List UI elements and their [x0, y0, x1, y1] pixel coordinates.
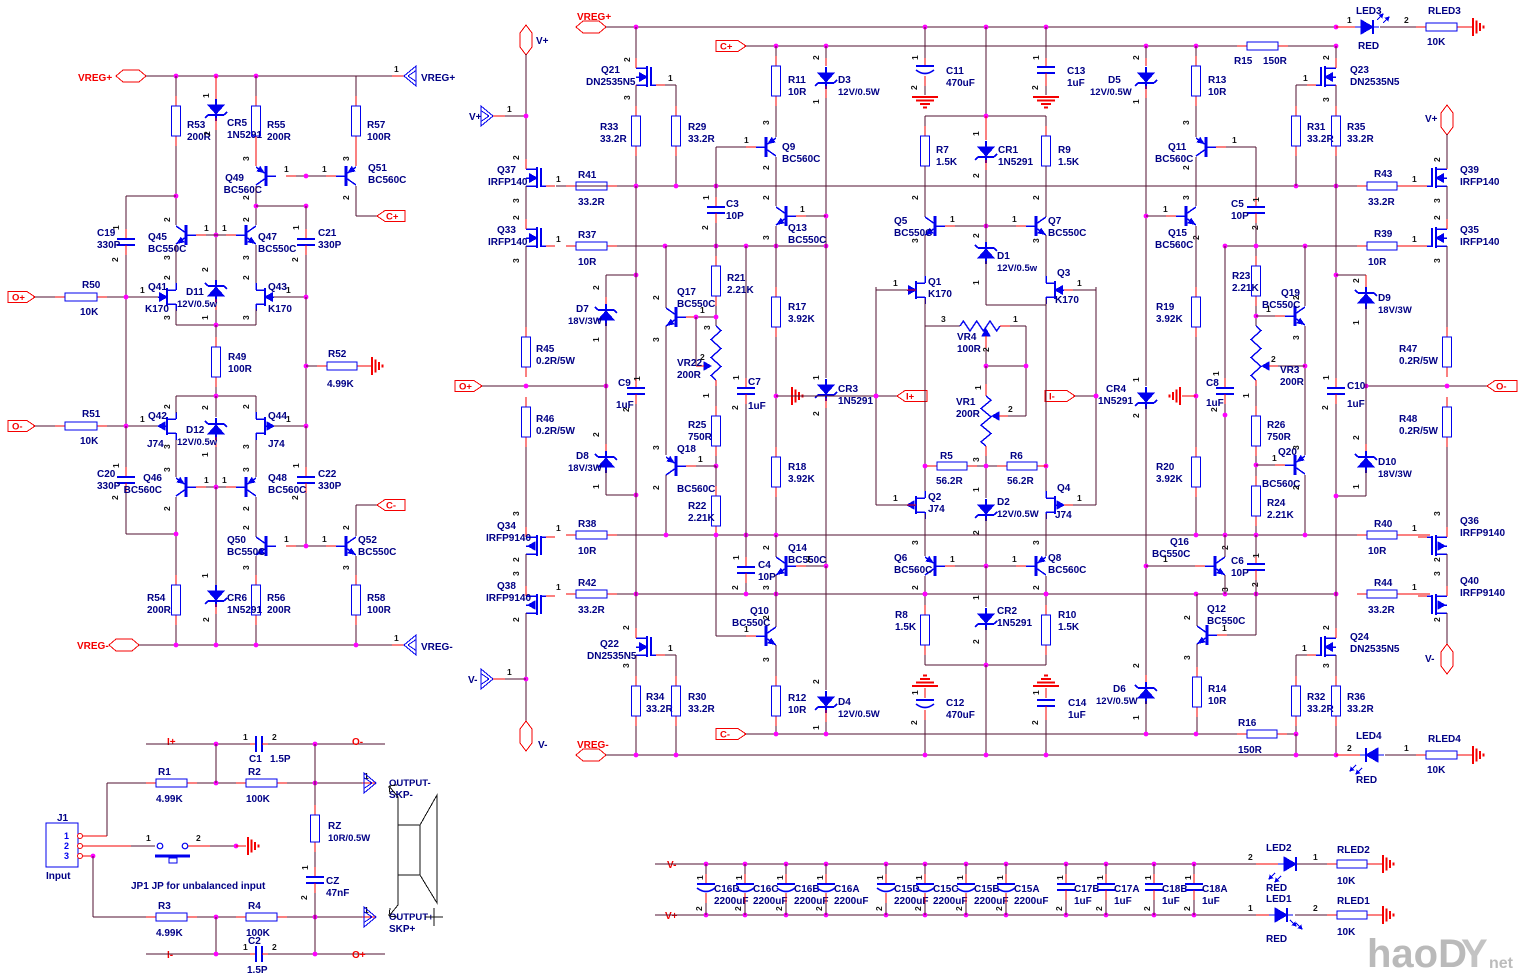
svg-text:3: 3	[241, 565, 251, 570]
svg-text:1: 1	[701, 195, 711, 200]
svg-text:2: 2	[971, 233, 981, 238]
svg-text:1: 1	[632, 376, 642, 381]
jfet Q42 J74	[166, 417, 168, 435]
svg-text:IRFP9140: IRFP9140	[1460, 588, 1505, 599]
svg-text:C16C: C16C	[753, 884, 779, 895]
svg-text:33.2R: 33.2R	[688, 134, 715, 145]
svg-text:1N5291: 1N5291	[227, 605, 262, 616]
svg-text:3: 3	[1181, 195, 1191, 200]
svg-text:1: 1	[291, 225, 301, 230]
svg-text:DN2535N5: DN2535N5	[1350, 644, 1400, 655]
wire R46 to Q34 drain	[525, 447, 527, 527]
svg-text:Q21: Q21	[601, 65, 620, 76]
wire Q14 emitter to rail594	[775, 575, 777, 594]
svg-text:200R: 200R	[1280, 377, 1305, 388]
svg-text:Q2: Q2	[928, 492, 942, 503]
svg-text:CR6: CR6	[227, 593, 247, 604]
capacitor C10	[1335, 378, 1337, 388]
svg-text:2: 2	[811, 55, 821, 60]
svg-text:2: 2	[1347, 743, 1352, 753]
svg-text:150R: 150R	[1263, 56, 1288, 67]
svg-text:1N5291: 1N5291	[1098, 396, 1133, 407]
svg-text:D4: D4	[838, 697, 851, 708]
svg-text:Y: Y	[1461, 932, 1488, 976]
svg-text:12V/0.5W: 12V/0.5W	[838, 87, 880, 98]
zener D5	[1145, 46, 1147, 58]
svg-text:C16B: C16B	[794, 884, 820, 895]
capacitor C18B	[1152, 862, 1157, 867]
svg-text:2: 2	[733, 906, 743, 911]
mosfet Q33 IRFP140	[525, 186, 527, 228]
wire R12 to C- rail	[775, 726, 777, 734]
resistor R52	[306, 365, 317, 367]
svg-text:2: 2	[241, 404, 251, 409]
svg-text:33.2R: 33.2R	[600, 134, 627, 145]
svg-text:Q44: Q44	[268, 411, 287, 422]
potentiometer VR3	[1251, 326, 1261, 380]
transistor Q52	[345, 536, 348, 556]
svg-text:3: 3	[241, 444, 251, 449]
resistor R20	[1195, 447, 1197, 457]
svg-text:2: 2	[971, 173, 981, 178]
svg-text:2200uF: 2200uF	[933, 896, 967, 907]
wire Q10 emitter to R12	[775, 645, 777, 676]
svg-text:1: 1	[291, 463, 301, 468]
capacitor C1	[250, 743, 256, 745]
resistor R46	[525, 397, 527, 407]
zener D3	[825, 46, 827, 58]
resistor R16	[1237, 733, 1247, 735]
svg-text:C2: C2	[248, 936, 261, 947]
svg-text:10P: 10P	[1231, 568, 1249, 579]
transistor Q12	[1206, 625, 1209, 645]
svg-text:I+: I+	[167, 737, 176, 748]
wire CR5 to D11 column	[215, 130, 217, 275]
jfet Q4 J74	[1054, 496, 1056, 514]
resistor RLED4	[1416, 754, 1426, 756]
resistor R9	[1045, 116, 1047, 126]
svg-text:V+: V+	[665, 911, 678, 922]
svg-text:2: 2	[196, 833, 201, 843]
transistor Q10	[765, 626, 768, 646]
wire VREG+ main rail	[606, 26, 1336, 28]
svg-text:Q43: Q43	[268, 282, 287, 293]
wire D8 to Q22 branch	[605, 470, 607, 495]
svg-text:2.21K: 2.21K	[1232, 283, 1259, 294]
wire Q19 collector to rail246	[1304, 246, 1306, 306]
svg-text:BC550C: BC550C	[788, 235, 826, 246]
svg-text:1: 1	[811, 725, 821, 730]
svg-text:10R: 10R	[788, 87, 807, 98]
svg-text:1: 1	[222, 475, 227, 485]
svg-text:33.2R: 33.2R	[1347, 704, 1374, 715]
svg-text:2: 2	[814, 906, 824, 911]
svg-text:R39: R39	[1374, 229, 1393, 240]
svg-text:10K: 10K	[1337, 927, 1356, 938]
svg-text:12V/0.5W: 12V/0.5W	[1096, 696, 1138, 707]
wire VR4 right to Q3 source	[1000, 325, 1010, 327]
wire Q12 collector to rail594	[1196, 594, 1198, 626]
svg-text:C+: C+	[720, 42, 733, 53]
svg-text:BC550C: BC550C	[258, 244, 296, 255]
transistor Q18	[675, 456, 678, 476]
svg-text:1: 1	[1211, 371, 1221, 376]
svg-text:Q41: Q41	[148, 282, 167, 293]
wire R1-R2 node	[197, 782, 236, 784]
svg-text:Q34: Q34	[497, 521, 516, 532]
svg-text:10K: 10K	[1427, 37, 1446, 48]
wire Q21 source to R33	[635, 86, 637, 106]
svg-text:R18: R18	[788, 462, 807, 473]
resistor R10	[1045, 605, 1047, 615]
svg-text:1: 1	[300, 865, 310, 870]
resistor R13	[1195, 46, 1197, 56]
svg-text:R24: R24	[1267, 498, 1286, 509]
svg-text:Q17: Q17	[677, 287, 696, 298]
svg-text:3: 3	[651, 445, 661, 450]
svg-text:2: 2	[1321, 625, 1331, 630]
svg-text:LED2: LED2	[1266, 843, 1292, 854]
wire I+ / O- top line with C1	[146, 743, 250, 745]
wire Q17 base to VR22 node	[686, 316, 696, 318]
capacitor C7	[745, 246, 747, 378]
svg-text:2: 2	[994, 906, 1004, 911]
svg-text:3: 3	[651, 337, 661, 342]
svg-text:2.21K: 2.21K	[1267, 510, 1294, 521]
mosfet Q36 IRFP9140	[1436, 536, 1447, 538]
svg-text:2: 2	[954, 906, 964, 911]
wire R26 to Q20 base node	[1255, 456, 1257, 476]
wire R51 to Q42 gate	[107, 425, 158, 427]
svg-text:D9: D9	[1378, 293, 1391, 304]
svg-text:2: 2	[1432, 617, 1442, 622]
svg-text:R49: R49	[228, 352, 247, 363]
svg-text:RED: RED	[1266, 883, 1287, 894]
svg-text:3: 3	[241, 315, 251, 320]
svg-text:1: 1	[695, 875, 705, 880]
svg-text:C9: C9	[618, 378, 631, 389]
svg-text:Q4: Q4	[1057, 483, 1071, 494]
svg-text:Q49: Q49	[225, 173, 244, 184]
svg-text:3.92K: 3.92K	[788, 474, 815, 485]
wire Q21 gate to R29	[665, 84, 676, 86]
svg-text:1: 1	[971, 131, 981, 136]
svg-text:R50: R50	[82, 280, 101, 291]
svg-text:1N5291: 1N5291	[838, 396, 873, 407]
svg-text:3: 3	[702, 325, 712, 330]
svg-text:3: 3	[64, 851, 69, 861]
resistor R47	[1446, 327, 1448, 337]
resistor R11	[775, 46, 777, 56]
svg-text:Q14: Q14	[788, 543, 807, 554]
capacitor C19	[125, 229, 127, 239]
svg-text:C5: C5	[1231, 199, 1244, 210]
svg-text:BC550C: BC550C	[1048, 228, 1086, 239]
svg-text:1: 1	[222, 223, 227, 233]
svg-text:33.2R: 33.2R	[1307, 134, 1334, 145]
svg-text:1: 1	[731, 555, 741, 560]
capacitor C8 column	[1224, 246, 1226, 378]
svg-text:1: 1	[1321, 375, 1331, 380]
svg-text:1: 1	[556, 234, 561, 244]
svg-text:LED4: LED4	[1356, 731, 1382, 742]
svg-text:750R: 750R	[1267, 432, 1292, 443]
capacitor C15D	[884, 862, 889, 867]
svg-text:3: 3	[1321, 97, 1331, 102]
svg-text:0.2R/5W: 0.2R/5W	[536, 426, 575, 437]
svg-text:2: 2	[162, 275, 172, 280]
capacitor C15B	[964, 862, 969, 867]
svg-text:R53: R53	[187, 120, 206, 131]
svg-text:VR1: VR1	[956, 397, 976, 408]
port C- (main)	[716, 729, 746, 740]
port VREG+ triangle (right)	[404, 66, 416, 86]
svg-text:R55: R55	[267, 120, 286, 131]
resistor R58	[355, 556, 357, 585]
svg-text:R11: R11	[788, 75, 806, 86]
svg-text:10P: 10P	[758, 572, 776, 583]
svg-text:1: 1	[243, 732, 248, 742]
transistor Q14	[785, 556, 788, 576]
svg-text:2: 2	[272, 942, 277, 952]
svg-text:DN2535N5: DN2535N5	[1350, 77, 1400, 88]
wire Q51 collector to C+ port	[355, 186, 357, 216]
wire Q42/Q44 drain line	[175, 396, 177, 413]
svg-text:1: 1	[556, 582, 561, 592]
transistor Q13	[775, 157, 777, 206]
svg-text:R58: R58	[367, 593, 386, 604]
svg-text:3: 3	[241, 255, 251, 260]
resistor R54	[175, 575, 177, 585]
jfet Q3 K170	[1054, 281, 1056, 299]
resistor R19	[1195, 287, 1197, 297]
resistor R50	[35, 296, 55, 298]
svg-text:BC560C: BC560C	[894, 565, 932, 576]
svg-text:C6: C6	[1231, 556, 1244, 567]
wire JP1 to ground	[188, 845, 210, 847]
svg-text:3: 3	[761, 120, 771, 125]
svg-text:1: 1	[322, 164, 327, 174]
svg-text:10K: 10K	[1337, 876, 1356, 887]
transistor Q8	[1035, 556, 1038, 576]
svg-text:0.2R/5W: 0.2R/5W	[1399, 426, 1438, 437]
svg-text:3: 3	[761, 585, 771, 590]
ground at R52	[367, 365, 372, 367]
svg-text:R44: R44	[1374, 578, 1393, 589]
mosfet Q23 DN2535N5	[1335, 46, 1337, 58]
svg-text:2: 2	[202, 131, 212, 136]
wire Q13 base to D3 column	[796, 215, 806, 217]
svg-text:33.2R: 33.2R	[1347, 134, 1374, 145]
zener D1	[985, 242, 987, 248]
resistor R23	[1255, 256, 1257, 266]
svg-text:200R: 200R	[267, 132, 292, 143]
svg-text:D11: D11	[186, 287, 204, 298]
svg-text:SKP-: SKP-	[389, 790, 413, 801]
svg-text:10R: 10R	[578, 257, 597, 268]
svg-text:2: 2	[1291, 295, 1301, 300]
svg-text:12V/0.5w: 12V/0.5w	[177, 299, 218, 310]
resistor RLED3	[1416, 26, 1426, 28]
svg-text:3: 3	[511, 571, 521, 576]
wire Q20 emitter up / collector down	[1304, 448, 1306, 455]
svg-text:2: 2	[1351, 435, 1361, 440]
wire rail535 to R44 junction	[1335, 535, 1337, 594]
svg-text:2: 2	[909, 85, 919, 90]
svg-text:C14: C14	[1068, 698, 1087, 709]
svg-text:2: 2	[1031, 585, 1041, 590]
svg-text:Input: Input	[46, 871, 71, 882]
port OUTPUT- triangle	[364, 773, 376, 793]
resistor R44	[1357, 593, 1367, 595]
wire R52 node column	[305, 297, 307, 426]
svg-text:R29: R29	[688, 122, 707, 133]
svg-text:2: 2	[290, 257, 300, 262]
svg-text:C21: C21	[318, 228, 337, 239]
svg-text:2: 2	[761, 615, 771, 620]
wire Q4 drain to Q8 emitter	[1045, 514, 1047, 556]
svg-text:1: 1	[815, 875, 825, 880]
svg-text:10R: 10R	[1368, 546, 1387, 557]
svg-text:D1: D1	[997, 251, 1010, 262]
wire Q24 source to R36	[1335, 655, 1337, 676]
svg-text:V-: V-	[468, 675, 477, 686]
svg-text:R36: R36	[1347, 692, 1366, 703]
resistor R43	[1357, 185, 1367, 187]
svg-text:1: 1	[200, 452, 210, 457]
svg-text:2: 2	[110, 495, 120, 500]
svg-text:3: 3	[1291, 335, 1301, 340]
wire Q15 base to D5 column	[1146, 215, 1166, 217]
svg-text:10P: 10P	[726, 211, 744, 222]
svg-text:2200uF: 2200uF	[794, 896, 828, 907]
wire CR1 top rail y116	[985, 27, 987, 116]
svg-text:2: 2	[162, 404, 172, 409]
wire Q38 source to V- node	[525, 613, 527, 722]
svg-text:470uF: 470uF	[946, 78, 975, 89]
svg-text:100K: 100K	[246, 794, 271, 805]
zener CR6	[215, 487, 217, 585]
wire CR1 to base node to D1	[985, 170, 987, 226]
svg-text:Q51: Q51	[368, 163, 387, 174]
svg-text:1: 1	[1404, 743, 1409, 753]
wire Q3 gate to I- column	[1064, 289, 1073, 291]
svg-text:1: 1	[973, 385, 983, 390]
wire Q44 gate to C22 column	[274, 425, 306, 427]
wire Q50 base to Q52 base	[286, 545, 296, 547]
capacitor C21	[305, 206, 307, 229]
svg-text:CZ: CZ	[326, 876, 339, 887]
wire C19 to O+ node column	[125, 255, 127, 297]
wire Q22 gate to R30	[665, 654, 676, 656]
speaker	[398, 825, 420, 875]
svg-text:1: 1	[811, 375, 821, 380]
zener CR2	[985, 566, 987, 607]
svg-text:1: 1	[200, 315, 210, 320]
svg-text:1uF: 1uF	[748, 401, 766, 412]
wire Q17 collector to bias rail	[665, 246, 667, 308]
svg-text:R43: R43	[1374, 169, 1393, 180]
potentiometer VR1	[985, 366, 987, 384]
svg-text:1: 1	[1303, 73, 1308, 83]
svg-text:3: 3	[910, 540, 920, 545]
svg-text:2: 2	[1094, 906, 1104, 911]
svg-text:33.2R: 33.2R	[1368, 197, 1395, 208]
wire J1 pin3 to R3	[83, 855, 93, 857]
svg-text:2: 2	[1432, 557, 1442, 562]
svg-text:10K: 10K	[80, 307, 99, 318]
port O+ input	[8, 292, 35, 303]
svg-text:2: 2	[1432, 215, 1442, 220]
svg-text:Q22: Q22	[600, 639, 619, 650]
svg-text:C12: C12	[946, 698, 965, 709]
svg-text:Q45: Q45	[148, 232, 167, 243]
capacitor C18A	[1192, 862, 1197, 867]
wire R3-R4 node	[197, 916, 236, 918]
resistor R25	[715, 406, 717, 416]
svg-text:1: 1	[140, 285, 145, 295]
svg-text:1: 1	[950, 554, 955, 564]
svg-text:1: 1	[893, 493, 898, 503]
svg-text:12V/0.5w: 12V/0.5w	[997, 263, 1038, 274]
svg-text:2: 2	[591, 285, 601, 290]
svg-text:V+: V+	[1425, 114, 1438, 125]
svg-text:2: 2	[511, 557, 521, 562]
svg-text:2: 2	[511, 155, 521, 160]
svg-text:1: 1	[700, 305, 705, 315]
svg-text:2: 2	[241, 525, 251, 530]
svg-text:R37: R37	[578, 230, 597, 241]
svg-text:3: 3	[511, 198, 521, 203]
port V+ hexagon left	[520, 25, 532, 55]
svg-text:RLED1: RLED1	[1337, 896, 1370, 907]
svg-text:CR2: CR2	[997, 606, 1017, 617]
jfet Q44 J74	[264, 417, 266, 435]
transistor Q45	[185, 225, 188, 245]
svg-text:330P: 330P	[97, 481, 121, 492]
port C+ (left block)	[377, 211, 405, 222]
svg-text:2: 2	[730, 585, 740, 590]
svg-text:2: 2	[1313, 903, 1318, 913]
svg-text:Q15: Q15	[1168, 228, 1187, 239]
capacitor C5	[1255, 197, 1257, 207]
svg-text:J74: J74	[1055, 510, 1072, 521]
svg-text:10R: 10R	[1368, 257, 1387, 268]
svg-text:CR4: CR4	[1106, 384, 1126, 395]
svg-text:100R: 100R	[367, 132, 392, 143]
svg-text:1: 1	[64, 831, 69, 841]
svg-text:BC560C: BC560C	[268, 485, 306, 496]
resistor R48	[1446, 397, 1448, 407]
wire R16 to R32 node	[1287, 733, 1296, 735]
wire Q49/Q47 node to C21 column	[256, 205, 306, 207]
svg-text:C4: C4	[758, 560, 771, 571]
resistor R32	[1295, 676, 1297, 686]
wire CR4 to D6	[1145, 406, 1147, 675]
svg-text:2: 2	[1271, 354, 1276, 364]
resistor R31	[1295, 106, 1297, 116]
svg-text:2: 2	[1250, 225, 1260, 230]
svg-text:2: 2	[1182, 615, 1192, 620]
port OUTPUT+ triangle	[364, 907, 376, 927]
zener CR5	[215, 76, 217, 102]
zener D9	[1365, 287, 1367, 293]
svg-text:RZ: RZ	[328, 821, 341, 832]
svg-text:1: 1	[1251, 197, 1261, 202]
svg-text:2: 2	[700, 352, 705, 362]
svg-text:IRFP140: IRFP140	[488, 177, 528, 188]
svg-text:2: 2	[971, 639, 981, 644]
